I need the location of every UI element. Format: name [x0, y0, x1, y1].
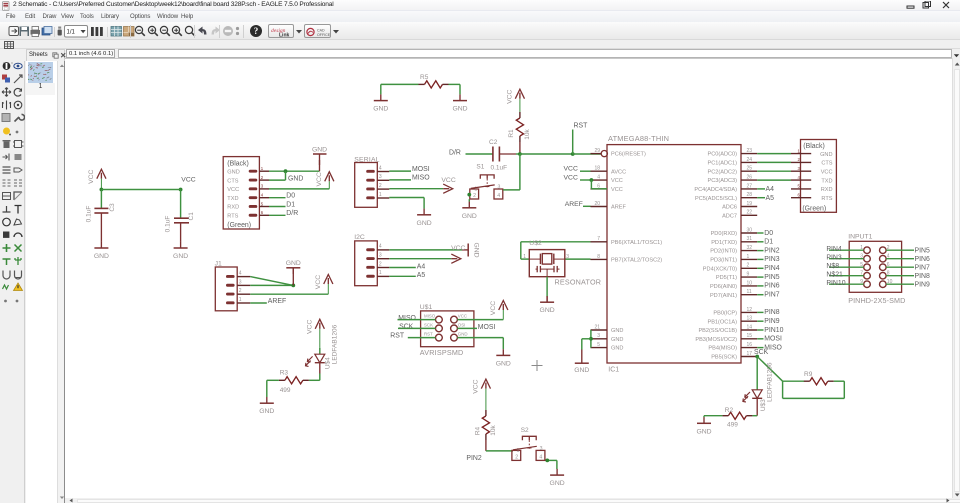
svg-text:GND: GND — [286, 260, 301, 267]
svg-text:VCC: VCC — [458, 314, 467, 319]
svg-text:9: 9 — [747, 272, 750, 278]
svg-text:1: 1 — [261, 166, 264, 171]
svg-text:499: 499 — [280, 387, 291, 394]
svg-text:PIN9: PIN9 — [764, 318, 779, 325]
svg-text:RST: RST — [424, 332, 433, 337]
svg-text:2: 2 — [379, 262, 382, 268]
svg-text:?: ? — [254, 26, 259, 36]
svg-text:499: 499 — [727, 422, 738, 429]
svg-text:12: 12 — [747, 307, 753, 313]
svg-text:VCC: VCC — [227, 187, 239, 193]
svg-text:GND: GND — [458, 332, 468, 337]
svg-text:CAD: CAD — [317, 28, 325, 32]
svg-text:6: 6 — [261, 210, 264, 215]
svg-text:GND: GND — [417, 220, 432, 227]
svg-text:1: 1 — [747, 254, 750, 260]
svg-text:29: 29 — [594, 148, 600, 154]
svg-text:RESONATOR: RESONATOR — [555, 278, 602, 287]
svg-text:PB1(OC1A): PB1(OC1A) — [707, 320, 737, 326]
svg-text:PB2(SS/OC1B): PB2(SS/OC1B) — [698, 328, 737, 334]
svg-text:PIN4: PIN4 — [826, 247, 841, 254]
svg-text:MOSI: MOSI — [412, 166, 430, 173]
svg-text:A4: A4 — [417, 264, 426, 271]
svg-text:25: 25 — [747, 166, 753, 172]
svg-text:18: 18 — [594, 166, 600, 172]
svg-text:TXD: TXD — [821, 179, 832, 185]
svg-text:VCC: VCC — [315, 275, 322, 289]
svg-text:D0: D0 — [764, 230, 773, 237]
svg-text:PB5(SCK): PB5(SCK) — [711, 355, 737, 361]
svg-text:GND: GND — [820, 152, 832, 158]
svg-text:32: 32 — [747, 245, 753, 251]
svg-text:N$8: N$8 — [826, 264, 839, 271]
svg-text:GND: GND — [496, 361, 511, 368]
svg-text:ATMEGA88-THIN: ATMEGA88-THIN — [608, 135, 669, 144]
svg-text:VCC: VCC — [490, 301, 497, 315]
svg-text:RST: RST — [574, 123, 589, 130]
svg-text:VCC: VCC — [451, 245, 465, 252]
svg-text:A4: A4 — [766, 187, 775, 194]
svg-text:PC0(ADC0): PC0(ADC0) — [707, 152, 737, 158]
svg-text:22: 22 — [747, 210, 753, 216]
svg-text:S2: S2 — [521, 427, 529, 434]
svg-text:VCC: VCC — [611, 187, 623, 193]
svg-text:PC3(ADC3): PC3(ADC3) — [707, 179, 737, 185]
svg-text:3: 3 — [239, 280, 242, 286]
svg-text:24: 24 — [747, 157, 753, 163]
svg-text:D0: D0 — [286, 193, 295, 200]
svg-text:PB7(XTAL2/TOSC2): PB7(XTAL2/TOSC2) — [611, 258, 662, 264]
svg-text:3: 3 — [379, 253, 382, 259]
svg-text:I2C: I2C — [354, 235, 365, 242]
svg-text:N$21: N$21 — [826, 272, 843, 279]
svg-text:J1: J1 — [215, 261, 222, 268]
svg-text:1: 1 — [239, 297, 242, 303]
svg-text:AVRISPSMD: AVRISPSMD — [420, 349, 464, 358]
svg-text:MOSI: MOSI — [764, 336, 782, 343]
svg-text:GND: GND — [373, 106, 388, 113]
svg-text:PIN7: PIN7 — [915, 265, 930, 272]
svg-text:A5: A5 — [766, 195, 775, 202]
svg-text:PD3(INT1): PD3(INT1) — [710, 258, 737, 264]
svg-text:PINHD-2X5-SMD: PINHD-2X5-SMD — [848, 296, 905, 305]
svg-text:VCC: VCC — [316, 172, 323, 186]
svg-text:TXD: TXD — [227, 196, 238, 202]
svg-text:VCC: VCC — [821, 170, 833, 176]
svg-text:PB6(XTAL1/TOSC1): PB6(XTAL1/TOSC1) — [611, 240, 662, 246]
svg-text:2: 2 — [239, 289, 242, 295]
svg-text:3: 3 — [597, 334, 600, 340]
svg-text:10: 10 — [747, 281, 753, 287]
svg-text:R5: R5 — [420, 74, 429, 81]
svg-text:2: 2 — [747, 263, 750, 269]
svg-text:PB3(MOSI/OC2): PB3(MOSI/OC2) — [695, 337, 737, 343]
svg-text:4: 4 — [379, 244, 382, 250]
svg-text:GND: GND — [259, 409, 274, 416]
svg-text:PD5(T1): PD5(T1) — [716, 276, 737, 282]
svg-text:PIN2: PIN2 — [764, 248, 779, 255]
svg-text:16: 16 — [747, 342, 753, 348]
svg-text:(Black): (Black) — [227, 161, 248, 168]
svg-text:PIN3: PIN3 — [826, 255, 841, 262]
svg-text:PC2(ADC2): PC2(ADC2) — [707, 170, 737, 176]
svg-text:5: 5 — [597, 342, 600, 348]
svg-text:11: 11 — [747, 289, 752, 295]
svg-text:IC1: IC1 — [608, 367, 619, 374]
svg-text:D1: D1 — [764, 239, 773, 246]
svg-text:19: 19 — [747, 201, 753, 207]
svg-text:2: 2 — [473, 193, 476, 199]
svg-text:(Green): (Green) — [227, 223, 251, 230]
svg-text:U$4: U$4 — [324, 357, 331, 369]
svg-text:28: 28 — [747, 192, 753, 198]
svg-text:GND: GND — [473, 243, 480, 258]
svg-text:MISO: MISO — [424, 314, 436, 319]
svg-text:SCK: SCK — [424, 323, 433, 328]
svg-text:3: 3 — [566, 255, 569, 261]
svg-text:2: 2 — [379, 183, 382, 189]
svg-text:8: 8 — [597, 254, 600, 260]
svg-text:C2: C2 — [489, 139, 498, 146]
svg-text:13: 13 — [747, 316, 753, 322]
svg-text:VCC: VCC — [306, 320, 313, 334]
svg-text:PIN7: PIN7 — [764, 292, 779, 299]
svg-text:MISO: MISO — [412, 175, 430, 182]
svg-text:23: 23 — [747, 148, 753, 154]
svg-text:VCC: VCC — [611, 179, 623, 185]
svg-text:30: 30 — [747, 228, 753, 234]
svg-text:PD6(AIN0): PD6(AIN0) — [710, 284, 737, 290]
svg-text:4: 4 — [497, 193, 500, 199]
svg-text:A5: A5 — [417, 273, 426, 280]
svg-text:VCC: VCC — [564, 175, 578, 182]
svg-text:PC5(ADC5/SCL): PC5(ADC5/SCL) — [695, 196, 737, 202]
svg-text:PC1(ADC1): PC1(ADC1) — [707, 161, 737, 167]
svg-text:3: 3 — [498, 185, 501, 191]
svg-text:1: 1 — [523, 255, 526, 261]
svg-text:PB4(MISO): PB4(MISO) — [708, 346, 737, 352]
svg-text:RTS: RTS — [821, 196, 832, 202]
svg-text:LEDFAB1206: LEDFAB1206 — [767, 363, 774, 403]
svg-text:GND: GND — [611, 328, 623, 334]
svg-text:26: 26 — [747, 175, 753, 181]
svg-text:PIN10: PIN10 — [764, 327, 783, 334]
svg-text:R1: R1 — [508, 129, 515, 138]
svg-text:VCC: VCC — [564, 166, 578, 173]
svg-text:(Green): (Green) — [802, 206, 826, 213]
svg-text:10k: 10k — [524, 129, 531, 140]
svg-text:MOSI: MOSI — [478, 324, 496, 331]
svg-text:PIN9: PIN9 — [915, 282, 930, 289]
svg-text:ADC7: ADC7 — [722, 214, 737, 220]
svg-text:AVCC: AVCC — [611, 170, 626, 176]
svg-text:CTS: CTS — [227, 179, 238, 185]
svg-text:RXD: RXD — [821, 187, 833, 193]
svg-text:GND: GND — [173, 253, 188, 260]
svg-text:D/R: D/R — [449, 150, 461, 157]
svg-text:INPUT1: INPUT1 — [848, 234, 872, 241]
svg-text:R2: R2 — [725, 407, 734, 414]
svg-text:RXD: RXD — [227, 205, 239, 211]
svg-text:VCC: VCC — [506, 90, 513, 104]
svg-text:D/R: D/R — [286, 211, 298, 218]
svg-text:GND: GND — [462, 213, 477, 220]
svg-text:C1: C1 — [188, 212, 195, 221]
svg-text:GND: GND — [452, 106, 467, 113]
svg-text:GND: GND — [312, 147, 327, 154]
svg-text:20: 20 — [594, 201, 600, 207]
svg-text:ADC6: ADC6 — [722, 205, 737, 211]
svg-text:AREF: AREF — [611, 205, 627, 211]
svg-text:GND: GND — [540, 308, 555, 315]
svg-text:PIN8: PIN8 — [764, 310, 779, 317]
svg-text:PIN5: PIN5 — [915, 248, 930, 255]
svg-text:GND: GND — [696, 429, 711, 436]
svg-text:7: 7 — [597, 237, 600, 243]
svg-text:14: 14 — [747, 325, 753, 331]
svg-text:PIN8: PIN8 — [915, 273, 930, 280]
svg-text:0.1uF: 0.1uF — [164, 216, 171, 233]
svg-text:27: 27 — [747, 184, 753, 190]
svg-text:PB0(ICP): PB0(ICP) — [713, 311, 737, 317]
svg-text:2: 2 — [515, 455, 518, 461]
svg-text:CTS: CTS — [821, 161, 832, 167]
svg-text:PC6(/RESET): PC6(/RESET) — [611, 152, 646, 158]
svg-text:RTS: RTS — [227, 214, 238, 220]
svg-text:VCC: VCC — [88, 170, 95, 184]
svg-text:GND: GND — [550, 480, 565, 487]
svg-text:31: 31 — [747, 237, 753, 243]
svg-text:R4: R4 — [474, 427, 481, 436]
svg-text:4: 4 — [261, 193, 264, 198]
svg-text:GND: GND — [288, 176, 303, 183]
svg-text:4: 4 — [239, 271, 242, 277]
svg-text:AREF: AREF — [565, 201, 583, 208]
svg-text:PIN6: PIN6 — [764, 283, 779, 290]
svg-text:R9: R9 — [804, 372, 813, 379]
svg-text:15: 15 — [747, 334, 753, 340]
svg-text:21: 21 — [594, 325, 600, 331]
svg-text:VCC: VCC — [472, 380, 479, 394]
svg-text:AREF: AREF — [268, 298, 286, 305]
svg-text:2: 2 — [261, 175, 264, 180]
svg-text:PIN3: PIN3 — [764, 257, 779, 264]
svg-text:RST: RST — [390, 333, 405, 340]
svg-text:D1: D1 — [286, 202, 295, 209]
svg-text:GND: GND — [611, 337, 623, 343]
svg-text:PIN4: PIN4 — [764, 265, 779, 272]
svg-text:4: 4 — [379, 166, 382, 172]
svg-text:U$2: U$2 — [529, 241, 542, 248]
svg-text:OFFICE: OFFICE — [317, 33, 330, 37]
svg-text:GND: GND — [227, 170, 239, 176]
svg-text:4: 4 — [597, 175, 600, 181]
svg-text:3: 3 — [261, 184, 264, 189]
svg-text:LEDFAB1206: LEDFAB1206 — [332, 325, 339, 365]
svg-text:5: 5 — [261, 202, 264, 207]
svg-text:1/1: 1/1 — [67, 30, 76, 36]
svg-text:C3: C3 — [109, 203, 116, 212]
svg-text:PIN5: PIN5 — [764, 274, 779, 281]
svg-text:PIN10: PIN10 — [826, 281, 845, 288]
svg-text:(Black): (Black) — [803, 143, 824, 150]
svg-text:10k: 10k — [490, 425, 497, 436]
svg-text:PD0(RXD): PD0(RXD) — [711, 231, 738, 237]
svg-text:MISO: MISO — [398, 315, 416, 322]
svg-text:PC4(ADC4/SDA): PC4(ADC4/SDA) — [694, 187, 737, 193]
svg-text:R3: R3 — [280, 370, 289, 377]
svg-text:0.1uF: 0.1uF — [86, 206, 93, 223]
svg-text:1: 1 — [379, 271, 382, 277]
svg-text:4: 4 — [539, 455, 542, 461]
svg-text:17: 17 — [747, 351, 753, 357]
svg-text:OSI: OSI — [458, 323, 466, 328]
svg-text:GND: GND — [94, 253, 109, 260]
svg-text:U$1: U$1 — [420, 304, 433, 311]
svg-text:PD7(AIN1): PD7(AIN1) — [710, 293, 737, 299]
svg-text:Link: Link — [279, 32, 289, 38]
svg-text:VCC: VCC — [181, 177, 195, 184]
svg-text:3: 3 — [379, 174, 382, 180]
svg-text:SCK: SCK — [399, 324, 414, 331]
svg-text:PD2(INT0): PD2(INT0) — [710, 249, 737, 255]
svg-text:3: 3 — [540, 446, 543, 452]
svg-text:PD1(TXD): PD1(TXD) — [711, 240, 737, 246]
svg-text:VCC: VCC — [441, 177, 455, 184]
svg-text:PD4(XCK/T0): PD4(XCK/T0) — [703, 267, 737, 273]
svg-text:GND: GND — [574, 367, 589, 374]
svg-text:0.1uF: 0.1uF — [491, 165, 508, 172]
svg-text:PIN2: PIN2 — [466, 455, 481, 462]
svg-text:GND: GND — [611, 346, 623, 352]
svg-text:S1: S1 — [476, 164, 484, 171]
svg-text:1: 1 — [379, 192, 382, 198]
svg-text:PIN6: PIN6 — [915, 256, 930, 263]
